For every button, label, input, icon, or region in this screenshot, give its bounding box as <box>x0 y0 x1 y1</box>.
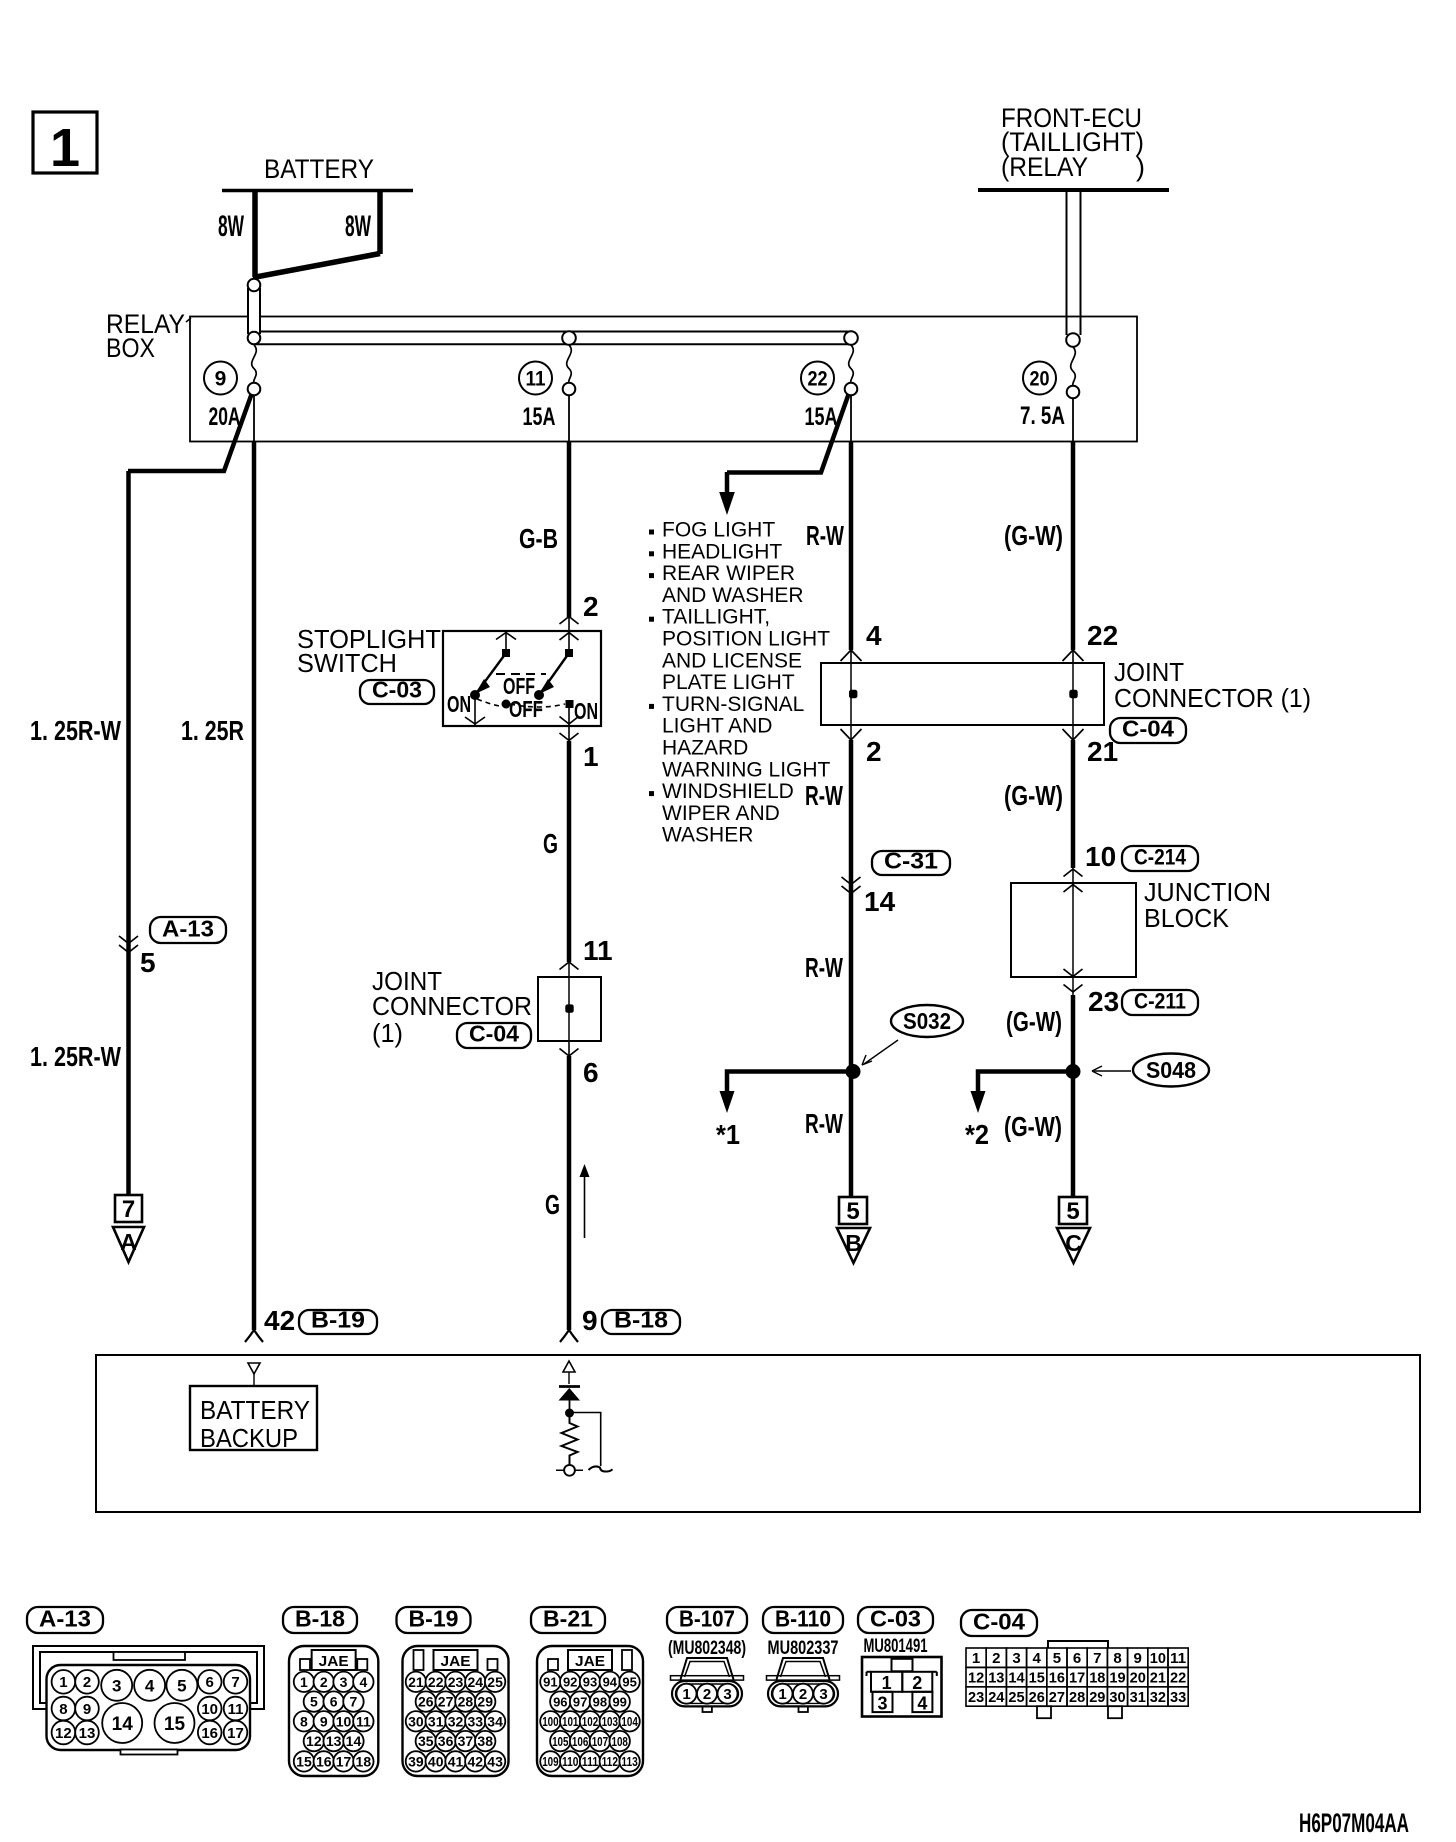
svg-text:8: 8 <box>300 1713 308 1729</box>
pin 9 marks b18 <box>560 1330 569 1342</box>
pin 2 marks <box>560 617 570 625</box>
svg-text:AND WASHER: AND WASHER <box>662 584 804 607</box>
wire 1.25R-W left column <box>126 471 131 1195</box>
svg-text:(RELAY: (RELAY <box>1001 152 1088 182</box>
svg-text:11: 11 <box>1170 1650 1186 1667</box>
svg-text:*1: *1 <box>716 1119 740 1150</box>
svg-text:11: 11 <box>583 935 613 966</box>
svg-text:11: 11 <box>356 1713 371 1729</box>
connector B-107 pinout <box>667 1607 747 1633</box>
battery backup box <box>190 1386 317 1450</box>
svg-text:25: 25 <box>1008 1689 1024 1706</box>
connector B-110 pinout <box>763 1607 843 1633</box>
svg-text:B-110: B-110 <box>775 1606 831 1632</box>
svg-text:4: 4 <box>145 1676 155 1695</box>
svg-text:20: 20 <box>1130 1670 1146 1687</box>
svg-text:R-W: R-W <box>805 780 843 811</box>
connector C-214 tag <box>1122 846 1198 871</box>
svg-text:JAE: JAE <box>319 1653 349 1670</box>
connector B-18 tag <box>602 1310 680 1334</box>
svg-text:JAE: JAE <box>441 1653 471 1670</box>
svg-text:1: 1 <box>682 1686 690 1703</box>
svg-text:18: 18 <box>356 1753 372 1769</box>
svg-text:1: 1 <box>882 1673 892 1693</box>
svg-text:AND LICENSE: AND LICENSE <box>662 649 802 672</box>
svg-text:25: 25 <box>487 1674 503 1690</box>
front-ecu bar <box>978 188 1169 192</box>
fuse 20 id <box>1023 362 1056 395</box>
svg-text:1: 1 <box>778 1686 786 1703</box>
svg-text:13: 13 <box>79 1725 96 1742</box>
svg-text:R-W: R-W <box>806 520 844 551</box>
connector C-03 tag <box>360 680 434 704</box>
svg-text:6: 6 <box>330 1694 338 1710</box>
svg-text:C-04: C-04 <box>469 1021 519 1047</box>
svg-text:109: 109 <box>542 1754 558 1769</box>
svg-text:21: 21 <box>1150 1670 1166 1687</box>
svg-text:15: 15 <box>164 1714 186 1735</box>
svg-text:99: 99 <box>612 1694 626 1709</box>
svg-text:14: 14 <box>112 1714 134 1735</box>
svg-text:40: 40 <box>428 1753 444 1769</box>
svg-text:33: 33 <box>1170 1689 1186 1706</box>
wire fuse9 to left elbow <box>128 393 252 471</box>
connector C-31 tag <box>872 851 950 875</box>
connector B-21 pinout <box>531 1607 605 1633</box>
svg-text:7: 7 <box>1093 1650 1101 1667</box>
fuse 9 id <box>204 362 237 395</box>
svg-text:16: 16 <box>1049 1670 1065 1687</box>
svg-text:11: 11 <box>228 1701 244 1718</box>
svg-text:2: 2 <box>703 1686 711 1703</box>
svg-text:3: 3 <box>112 1676 121 1695</box>
svg-text:S048: S048 <box>1146 1057 1196 1083</box>
svg-text:22: 22 <box>1087 620 1118 651</box>
svg-text:103: 103 <box>602 1714 618 1729</box>
wire fuse22 to arrow elbow <box>727 393 849 473</box>
battery-to-relaybox connector <box>248 288 260 334</box>
svg-text:(G-W): (G-W) <box>1006 1006 1062 1037</box>
fuse 22 id <box>801 362 834 395</box>
svg-text:1: 1 <box>59 1674 67 1691</box>
svg-text:100: 100 <box>542 1714 558 1729</box>
svg-text:C-211: C-211 <box>1134 989 1186 1014</box>
resistor R1 <box>562 1415 578 1464</box>
wire G mid <box>568 726 570 741</box>
splice S048 tag <box>1133 1054 1209 1087</box>
svg-text:CONNECTOR (1): CONNECTOR (1) <box>1114 683 1311 713</box>
wire G-W bottom <box>1071 1071 1076 1197</box>
svg-text:94: 94 <box>603 1674 618 1689</box>
svg-text:12: 12 <box>968 1670 984 1687</box>
svg-text:30: 30 <box>1109 1689 1125 1706</box>
svg-text:JAE: JAE <box>575 1653 605 1670</box>
direction arrow up <box>584 1170 586 1238</box>
svg-text:2: 2 <box>866 736 882 767</box>
svg-text:92: 92 <box>563 1674 577 1689</box>
svg-text:B: B <box>845 1230 862 1256</box>
wire G-W upper <box>1072 398 1074 442</box>
svg-text:HAZARD: HAZARD <box>662 737 748 760</box>
sheet number box 1 <box>33 112 97 173</box>
connector A-13 tag <box>150 917 226 943</box>
ecu box <box>96 1355 1420 1512</box>
svg-text:BLOCK: BLOCK <box>1144 903 1230 933</box>
connector C-04 pinout <box>961 1610 1037 1636</box>
connector C-04 tag mid <box>457 1023 531 1048</box>
svg-text:BACKUP: BACKUP <box>200 1423 298 1453</box>
svg-text:41: 41 <box>448 1753 464 1769</box>
svg-text:101: 101 <box>562 1714 578 1729</box>
fuse 20 terminals <box>1066 333 1080 347</box>
destination B triangle <box>837 1228 870 1263</box>
svg-text:5: 5 <box>1066 1198 1079 1225</box>
svg-text:19: 19 <box>1109 1670 1125 1687</box>
svg-text:105: 105 <box>552 1734 568 1749</box>
svg-text:24: 24 <box>468 1674 484 1690</box>
svg-text:3: 3 <box>1012 1650 1020 1667</box>
svg-text:TURN-SIGNAL: TURN-SIGNAL <box>662 693 804 716</box>
diode input pin <box>563 1361 575 1372</box>
svg-text:WINDSHIELD: WINDSHIELD <box>662 780 794 803</box>
svg-text:26: 26 <box>418 1694 434 1710</box>
svg-text:POSITION LIGHT: POSITION LIGHT <box>662 628 830 651</box>
relay box <box>190 317 1137 442</box>
svg-text:7. 5A: 7. 5A <box>1020 402 1065 430</box>
pin 21 marks <box>1063 729 1074 740</box>
svg-text:31: 31 <box>1130 1689 1146 1706</box>
svg-text:23: 23 <box>968 1689 984 1706</box>
svg-text:9: 9 <box>215 368 227 391</box>
svg-text:26: 26 <box>1029 1689 1045 1706</box>
connector C-211 tag <box>1122 990 1198 1015</box>
svg-text:6: 6 <box>583 1057 599 1088</box>
svg-text:5: 5 <box>846 1198 859 1225</box>
connector A-13 pinout <box>27 1607 103 1633</box>
svg-text:CONNECTOR: CONNECTOR <box>372 991 532 1021</box>
svg-text:18: 18 <box>1089 1670 1105 1687</box>
svg-text:*2: *2 <box>965 1119 989 1150</box>
svg-text:10: 10 <box>336 1713 352 1729</box>
svg-text:G: G <box>543 828 558 859</box>
svg-text:C-03: C-03 <box>372 677 422 703</box>
svg-text:C: C <box>1065 1230 1082 1256</box>
svg-text:(G-W): (G-W) <box>1004 780 1063 811</box>
svg-text:2: 2 <box>992 1650 1000 1667</box>
svg-text:C-04: C-04 <box>1122 716 1174 742</box>
svg-text:14: 14 <box>864 886 896 917</box>
svg-text:(MU802348): (MU802348) <box>668 1638 746 1659</box>
svg-text:13: 13 <box>988 1670 1004 1687</box>
node splice in ecu <box>565 1409 574 1418</box>
svg-text:HEADLIGHT: HEADLIGHT <box>662 540 782 563</box>
svg-text:8W: 8W <box>218 210 244 243</box>
svg-text:13: 13 <box>326 1733 342 1749</box>
svg-text:8: 8 <box>59 1701 67 1718</box>
svg-text:9: 9 <box>582 1305 598 1336</box>
svg-text:16: 16 <box>316 1753 332 1769</box>
fuse 9 terminals <box>252 345 257 383</box>
svg-text:(G-W): (G-W) <box>1004 520 1063 551</box>
svg-text:MU801491: MU801491 <box>864 1636 928 1657</box>
svg-text:113: 113 <box>621 1754 637 1769</box>
svg-text:C-214: C-214 <box>1134 845 1187 870</box>
svg-text:2: 2 <box>83 1674 91 1691</box>
arrow to fused circuits <box>725 472 730 494</box>
splice S032 node <box>846 1064 861 1079</box>
svg-text:A-13: A-13 <box>39 1606 91 1632</box>
svg-text:1: 1 <box>583 741 599 772</box>
svg-text:36: 36 <box>438 1733 454 1749</box>
svg-text:16: 16 <box>201 1725 218 1742</box>
svg-text:28: 28 <box>458 1694 474 1710</box>
splice S032 tag <box>891 1005 963 1037</box>
svg-text:112: 112 <box>602 1754 618 1769</box>
svg-text:5: 5 <box>140 947 156 978</box>
svg-text:96: 96 <box>553 1694 567 1709</box>
svg-text:WARNING LIGHT: WARNING LIGHT <box>662 758 831 781</box>
fuse 11 id <box>519 362 552 395</box>
svg-text:G: G <box>545 1189 560 1220</box>
svg-text:): ) <box>1136 152 1145 182</box>
svg-text:3: 3 <box>723 1686 731 1703</box>
svg-text:42: 42 <box>264 1305 295 1336</box>
svg-text:9: 9 <box>83 1701 91 1718</box>
destination A triangle <box>113 1227 144 1262</box>
svg-text:5: 5 <box>310 1694 318 1710</box>
svg-text:42: 42 <box>468 1753 484 1769</box>
svg-text:21: 21 <box>1087 736 1118 767</box>
svg-text:15A: 15A <box>805 403 838 431</box>
svg-text:27: 27 <box>1049 1689 1065 1706</box>
bus bar <box>261 331 852 333</box>
ground terminal circle <box>556 1469 583 1471</box>
connector B-19 tag <box>299 1310 377 1334</box>
svg-text:R-W: R-W <box>805 952 843 983</box>
svg-text:43: 43 <box>487 1753 503 1769</box>
svg-text:ON: ON <box>574 698 598 724</box>
svg-text:A: A <box>120 1229 137 1255</box>
svg-text:106: 106 <box>572 1734 588 1749</box>
svg-text:22: 22 <box>428 1674 444 1690</box>
svg-text:WASHER: WASHER <box>662 824 753 847</box>
wire G-B upper <box>568 395 570 442</box>
svg-text:9: 9 <box>1134 1650 1142 1667</box>
svg-text:93: 93 <box>583 1674 597 1689</box>
svg-text:3: 3 <box>877 1694 887 1714</box>
svg-text:2: 2 <box>912 1673 922 1693</box>
svg-text:34: 34 <box>487 1713 503 1729</box>
svg-text:33: 33 <box>468 1713 484 1729</box>
svg-text:1. 25R: 1. 25R <box>181 715 244 746</box>
wire G lower <box>568 1041 570 1057</box>
svg-text:MU802337: MU802337 <box>768 1638 839 1659</box>
wire R-W mid <box>849 740 854 1071</box>
svg-text:(G-W): (G-W) <box>1004 1111 1062 1142</box>
pin 42 marks <box>245 1330 254 1342</box>
svg-text:22: 22 <box>1170 1670 1186 1687</box>
svg-text:8W: 8W <box>345 210 371 243</box>
svg-text:17: 17 <box>336 1753 352 1769</box>
svg-text:20A: 20A <box>209 403 241 431</box>
svg-text:22: 22 <box>808 368 828 391</box>
svg-text:6: 6 <box>206 1674 214 1691</box>
svg-text:4: 4 <box>1033 1650 1042 1667</box>
joint connector 1 mid box <box>538 977 601 1041</box>
svg-text:3: 3 <box>340 1674 348 1690</box>
branch *1 <box>727 1072 853 1093</box>
svg-text:OFF: OFF <box>509 696 543 722</box>
joint connector 1 box <box>821 663 1104 725</box>
svg-text:102: 102 <box>582 1714 598 1729</box>
pin 23 marks <box>1064 985 1074 993</box>
svg-text:S032: S032 <box>903 1008 951 1034</box>
svg-text:3: 3 <box>819 1686 827 1703</box>
wire R-W upper <box>850 395 852 442</box>
connector B-19 pinout <box>397 1607 471 1633</box>
wire R-W lower <box>849 1071 854 1197</box>
svg-text:2: 2 <box>799 1686 807 1703</box>
svg-text:B-107: B-107 <box>679 1606 735 1632</box>
svg-text:15: 15 <box>1029 1670 1045 1687</box>
svg-text:27: 27 <box>438 1694 454 1710</box>
svg-text:104: 104 <box>621 1714 638 1729</box>
ground branch <box>572 1413 601 1467</box>
svg-text:12: 12 <box>55 1725 72 1742</box>
svg-text:BOX: BOX <box>106 333 155 363</box>
svg-text:5: 5 <box>177 1676 186 1695</box>
svg-text:39: 39 <box>408 1753 424 1769</box>
svg-text:111: 111 <box>582 1754 598 1769</box>
svg-text:B-21: B-21 <box>543 1606 593 1632</box>
svg-text:1. 25R-W: 1. 25R-W <box>30 715 121 746</box>
svg-text:1: 1 <box>300 1674 308 1690</box>
battery backup input pin <box>248 1363 260 1374</box>
svg-text:38: 38 <box>477 1733 493 1749</box>
svg-text:1: 1 <box>972 1650 980 1667</box>
svg-text:97: 97 <box>573 1694 587 1709</box>
svg-text:6: 6 <box>1073 1650 1081 1667</box>
battery B1 symbol <box>222 189 413 193</box>
svg-text:LIGHT AND: LIGHT AND <box>662 715 772 738</box>
svg-text:R-W: R-W <box>805 1108 843 1139</box>
svg-text:TAILLIGHT,: TAILLIGHT, <box>662 606 770 629</box>
svg-text:C-31: C-31 <box>884 848 938 874</box>
svg-text:8: 8 <box>1113 1650 1121 1667</box>
svg-text:7: 7 <box>350 1694 358 1710</box>
svg-text:4: 4 <box>917 1694 927 1714</box>
svg-text:32: 32 <box>1150 1689 1166 1706</box>
svg-text:24: 24 <box>988 1689 1005 1706</box>
C-31 crossing marks <box>842 877 852 885</box>
svg-text:A-13: A-13 <box>162 916 214 942</box>
svg-text:BATTERY: BATTERY <box>264 154 374 184</box>
svg-text:B-19: B-19 <box>311 1307 365 1333</box>
svg-text:108: 108 <box>612 1734 628 1749</box>
connector C-03 pinout <box>858 1607 933 1633</box>
svg-text:ON: ON <box>447 691 471 717</box>
svg-text:(1): (1) <box>372 1018 403 1048</box>
connector B-18 pinout <box>283 1607 357 1633</box>
svg-text:REAR WIPER: REAR WIPER <box>662 562 795 585</box>
front-ecu to relay box double wire <box>1066 192 1068 335</box>
terminal 7 box <box>115 1195 142 1222</box>
svg-text:B-18: B-18 <box>614 1307 668 1333</box>
svg-text:WIPER AND: WIPER AND <box>662 802 780 825</box>
pin 6 marks <box>560 1049 570 1057</box>
svg-text:H6P07M04AA: H6P07M04AA <box>1299 1808 1409 1838</box>
svg-text:23: 23 <box>448 1674 464 1690</box>
svg-text:10: 10 <box>1150 1650 1166 1667</box>
connector C-04 tag right <box>1110 718 1186 743</box>
svg-text:2: 2 <box>320 1674 328 1690</box>
junction block box <box>1011 883 1136 977</box>
svg-text:29: 29 <box>1089 1689 1105 1706</box>
svg-text:30: 30 <box>408 1713 424 1729</box>
svg-text:15: 15 <box>296 1753 312 1769</box>
wire 1.25R column <box>253 395 255 442</box>
svg-text:12: 12 <box>306 1733 322 1749</box>
svg-text:5: 5 <box>1053 1650 1061 1667</box>
svg-text:29: 29 <box>477 1694 493 1710</box>
svg-text:1. 25R-W: 1. 25R-W <box>30 1041 121 1072</box>
svg-text:17: 17 <box>227 1725 244 1742</box>
svg-text:SWITCH: SWITCH <box>297 648 397 678</box>
svg-text:C-04: C-04 <box>973 1609 1025 1635</box>
terminal 5 box B <box>839 1197 867 1224</box>
fuse 11 terminals <box>562 331 576 345</box>
branch *2 <box>978 1072 1073 1093</box>
svg-text:107: 107 <box>592 1734 608 1749</box>
svg-text:4: 4 <box>866 620 882 651</box>
diode D1 <box>559 1385 580 1388</box>
switch pole right <box>568 631 570 651</box>
pin 1 marks <box>560 717 570 725</box>
svg-text:110: 110 <box>562 1754 578 1769</box>
wire G-W lower <box>1071 995 1076 1071</box>
pin 2 marks rw <box>841 729 852 740</box>
svg-text:95: 95 <box>622 1674 636 1689</box>
svg-text:23: 23 <box>1088 986 1119 1017</box>
svg-text:C-03: C-03 <box>870 1606 921 1632</box>
fuse 22 terminals <box>844 331 858 345</box>
svg-text:7: 7 <box>231 1674 239 1691</box>
svg-text:17: 17 <box>1069 1670 1085 1687</box>
svg-text:1: 1 <box>50 118 80 178</box>
svg-text:PLATE LIGHT: PLATE LIGHT <box>662 671 795 694</box>
svg-text:15A: 15A <box>523 403 556 431</box>
splice S048 node <box>1066 1064 1081 1079</box>
svg-text:21: 21 <box>408 1674 424 1690</box>
svg-text:28: 28 <box>1069 1689 1085 1706</box>
destination C triangle <box>1057 1228 1090 1263</box>
svg-text:31: 31 <box>428 1713 444 1729</box>
stoplight switch box <box>443 631 601 726</box>
svg-text:B-18: B-18 <box>295 1606 345 1632</box>
terminal 5 box C <box>1059 1197 1087 1224</box>
svg-text:9: 9 <box>320 1713 328 1729</box>
svg-text:10: 10 <box>1085 841 1116 872</box>
svg-text:BATTERY: BATTERY <box>200 1395 310 1425</box>
svg-text:10: 10 <box>201 1701 218 1718</box>
svg-text:B-19: B-19 <box>409 1606 459 1632</box>
switch pole left <box>496 633 506 640</box>
svg-text:G-B: G-B <box>519 523 558 554</box>
wire G-W mid <box>1071 740 1076 868</box>
svg-text:14: 14 <box>346 1733 362 1749</box>
fused circuit list <box>649 530 654 535</box>
svg-text:14: 14 <box>1008 1670 1025 1687</box>
